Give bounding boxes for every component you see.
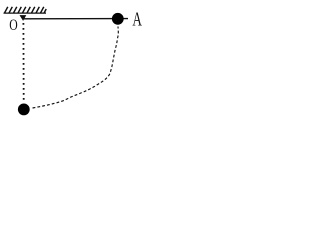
svg-text:O: O <box>9 16 17 34</box>
ceiling base line <box>4 12 47 14</box>
svg-text:A: A <box>132 8 142 30</box>
pivot triangle <box>20 15 27 21</box>
wire O to A (horizontal line) <box>24 18 128 20</box>
ball A <box>112 13 124 25</box>
ceiling hatch strokes <box>5 7 47 13</box>
dotted vertical line (rest position of string) <box>22 23 24 102</box>
ball at rest (bottom) <box>18 104 30 116</box>
dashed arc trajectory <box>31 27 119 109</box>
